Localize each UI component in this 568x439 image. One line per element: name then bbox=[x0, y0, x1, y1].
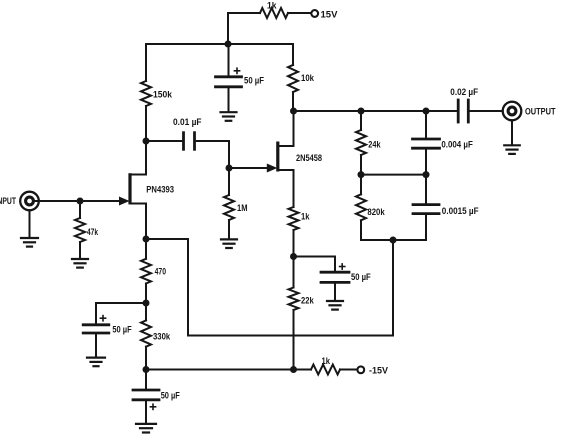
svg-text:1k: 1k bbox=[322, 356, 331, 366]
node 470/330k junction bbox=[143, 300, 150, 307]
svg-text:330k: 330k bbox=[153, 332, 170, 342]
resistor 1k (-15V feed) bbox=[311, 356, 340, 375]
ground (output connector) bbox=[504, 145, 520, 154]
svg-text:50 µF: 50 µF bbox=[244, 76, 265, 86]
wire 0.0015uF top lead bbox=[425, 175, 427, 205]
capacitor 50uF (drain bypass) top lead bbox=[228, 44, 230, 77]
wire 0.0015uF bottom lead bbox=[425, 214, 427, 240]
capacitor 0.01uF bbox=[173, 117, 202, 149]
svg-text:50 µF: 50 µF bbox=[351, 272, 371, 282]
wire to 50uF bias bypass cap bbox=[96, 303, 146, 325]
wire to 50uF source bypass bbox=[294, 257, 336, 273]
node 0.004uF junction bbox=[423, 108, 430, 115]
wire 24k bottom lead bbox=[360, 155, 362, 175]
svg-text:OUTPUT: OUTPUT bbox=[525, 107, 556, 117]
svg-text:1M: 1M bbox=[237, 203, 248, 213]
wire source 2N5458 bbox=[279, 170, 294, 207]
capacitor 50uF (bias bypass) bbox=[83, 316, 132, 335]
terminal -15V bbox=[357, 366, 388, 376]
transistor Q2 2N5458 bbox=[276, 142, 322, 172]
wire 150k bottom lead bbox=[145, 106, 147, 141]
svg-text:47k: 47k bbox=[87, 227, 98, 237]
svg-text:470: 470 bbox=[155, 267, 166, 277]
wire drain 2N5458 bbox=[279, 111, 294, 146]
resistor 1M bbox=[224, 195, 248, 220]
wire to +15V terminal bbox=[288, 12, 311, 14]
wire +15V branch up bbox=[228, 13, 260, 44]
svg-text:15V: 15V bbox=[321, 10, 338, 20]
wire source bypass cap ground lead bbox=[334, 282, 336, 300]
wire 0.004uF to mid row bbox=[425, 148, 427, 174]
wire 470 top lead bbox=[145, 239, 147, 259]
wire 150k top lead bbox=[145, 44, 147, 81]
wire drain PN4393 bbox=[131, 141, 146, 175]
capacitor 50uF (drain bypass) bbox=[216, 68, 265, 87]
node drain/output junction bbox=[290, 108, 297, 115]
wire 470 bottom lead bbox=[145, 284, 147, 304]
node top rail junction bbox=[225, 41, 232, 48]
wire input connector ground lead bbox=[29, 210, 31, 237]
wire 1M ground lead bbox=[228, 220, 230, 239]
svg-text:10k: 10k bbox=[301, 73, 314, 83]
svg-text:150k: 150k bbox=[153, 90, 172, 100]
node feedback mid-right junction bbox=[423, 171, 430, 178]
wire output row bbox=[294, 110, 457, 112]
wire 10k bottom lead bbox=[292, 92, 294, 111]
svg-text:50 µF: 50 µF bbox=[112, 324, 132, 334]
gate arrow PN4393 bbox=[119, 197, 130, 206]
wire output connector ground lead bbox=[511, 120, 513, 144]
node feedback mid-left junction bbox=[358, 171, 365, 178]
capacitor 0.004uF bbox=[413, 139, 474, 149]
svg-text:1k: 1k bbox=[267, 1, 277, 11]
svg-text:PN4393: PN4393 bbox=[146, 185, 174, 195]
resistor 330k bbox=[141, 320, 170, 346]
wire source PN4393 bbox=[131, 204, 146, 240]
ground (47k) bbox=[72, 259, 88, 268]
ground (rail bypass cap) bbox=[136, 424, 156, 433]
wire 0.01uF to gate node bbox=[195, 141, 230, 168]
capacitor 50uF (rail bypass) bbox=[133, 390, 180, 409]
capacitor 0.02uF bbox=[450, 87, 478, 122]
resistor 10k bbox=[288, 65, 314, 92]
resistor 470 bbox=[141, 259, 166, 284]
svg-text:INPUT: INPUT bbox=[0, 196, 16, 206]
resistor 150k bbox=[141, 81, 172, 106]
terminal +15V bbox=[311, 10, 337, 20]
node input junction bbox=[77, 198, 84, 205]
resistor 47k bbox=[75, 218, 98, 242]
node 2N5458 gate junction bbox=[226, 165, 233, 172]
wire 330k bottom lead bbox=[145, 347, 147, 370]
svg-text:50 µF: 50 µF bbox=[161, 390, 181, 400]
wire 24k top lead bbox=[360, 111, 362, 130]
wire 22k to -15V rail bbox=[293, 310, 295, 370]
node drain/cap junction bbox=[143, 138, 150, 145]
wire rail bypass cap top lead bbox=[145, 370, 147, 390]
wire gate PN4393 bbox=[39, 200, 120, 202]
wire -15V rail bbox=[146, 369, 311, 371]
svg-text:0.004 µF: 0.004 µF bbox=[441, 139, 473, 149]
ground (drain bypass cap) bbox=[221, 112, 237, 121]
wire gate 2N5458 bbox=[229, 167, 267, 169]
wire 10k top lead bbox=[292, 44, 294, 65]
ground (source bypass cap) bbox=[327, 301, 343, 310]
svg-text:820k: 820k bbox=[367, 207, 384, 217]
wire top rail bbox=[146, 43, 293, 45]
wire 820k bottom lead bbox=[360, 220, 362, 240]
wire feedback bottom row bbox=[361, 239, 426, 241]
capacitor 50uF (source bypass) bbox=[321, 264, 371, 283]
wire mid row bbox=[361, 174, 426, 176]
wire 47k top lead bbox=[79, 201, 81, 218]
svg-text:-15V: -15V bbox=[369, 366, 388, 376]
wire feedback run bbox=[146, 239, 393, 336]
wire 0.02uF to output bbox=[470, 110, 503, 112]
svg-text:0.01 µF: 0.01 µF bbox=[173, 117, 202, 127]
wire to -15V terminal bbox=[340, 369, 357, 371]
connector INPUT bbox=[0, 192, 39, 211]
svg-text:1k: 1k bbox=[301, 212, 310, 222]
capacitor 0.0015uF bbox=[413, 205, 479, 216]
wire 1M top lead bbox=[228, 168, 230, 195]
wire bias cap ground lead bbox=[95, 333, 97, 357]
wire 22k top lead bbox=[293, 257, 295, 288]
node source bypass junction bbox=[290, 253, 297, 260]
svg-text:2N5458: 2N5458 bbox=[296, 153, 322, 163]
node feedback down junction bbox=[390, 237, 397, 244]
resistor 24k bbox=[356, 130, 381, 155]
node 24k junction bbox=[358, 108, 365, 115]
wire drain node to 0.01uF bbox=[146, 140, 183, 142]
wire 330k top lead bbox=[145, 303, 147, 320]
svg-text:0.0015 µF: 0.0015 µF bbox=[442, 206, 479, 216]
svg-text:24k: 24k bbox=[368, 140, 380, 150]
wire cap to ground bbox=[228, 87, 230, 111]
wire 1k to 22k junction bbox=[293, 230, 295, 257]
node 22k/rail junction bbox=[290, 366, 297, 373]
node PN4393 source junction bbox=[143, 236, 150, 243]
svg-text:0.02 µF: 0.02 µF bbox=[450, 87, 478, 97]
gate arrow 2N5458 bbox=[267, 164, 278, 173]
wire 820k top lead bbox=[360, 175, 362, 195]
resistor 22k bbox=[289, 288, 314, 311]
wire 47k ground lead bbox=[79, 242, 81, 259]
ground (1M) bbox=[221, 239, 237, 248]
ground (input connector) bbox=[21, 238, 38, 247]
transistor Q1 PN4393 bbox=[128, 173, 174, 204]
connector OUTPUT bbox=[503, 102, 556, 121]
wire rail bypass cap ground lead bbox=[145, 400, 147, 423]
node -15V rail left junction bbox=[143, 366, 150, 373]
wire 0.004uF top lead bbox=[425, 111, 427, 139]
resistor 1k (source load) bbox=[289, 207, 310, 230]
resistor 1k (+15V feed) bbox=[260, 1, 288, 19]
svg-text:22k: 22k bbox=[301, 296, 314, 306]
resistor 820k bbox=[356, 194, 385, 220]
ground (bias bypass cap) bbox=[87, 358, 105, 367]
